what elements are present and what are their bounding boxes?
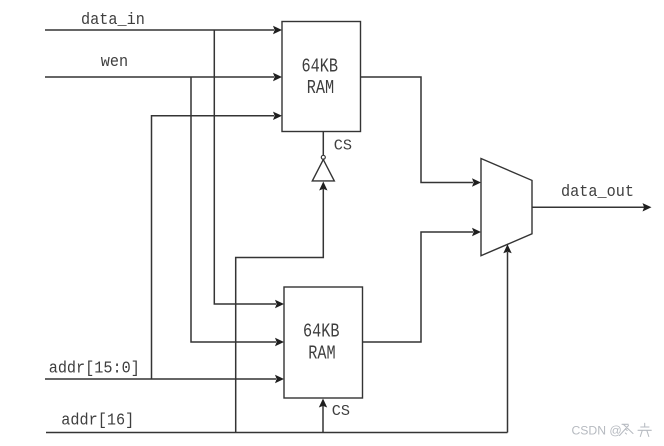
arrowhead wen into U2: [275, 338, 284, 346]
label U1 value 64KB RAM: [302, 57, 338, 100]
svg-text:64KB: 64KB: [302, 57, 338, 78]
watermark CSDN @dong hui: [572, 423, 652, 437]
wire addr[15:0] branch to top RAM: [152, 116, 275, 379]
svg-text:wen: wen: [101, 53, 128, 72]
arrowhead into inverter input: [319, 182, 327, 191]
wire U2 CS from addr[16]: [322, 406, 324, 433]
wire wen: [45, 76, 274, 78]
arrowhead data_in into U1: [273, 26, 282, 34]
label U2 value 64KB RAM: [303, 322, 339, 365]
svg-text:addr[16]: addr[16]: [61, 411, 134, 430]
mux U4: [481, 159, 532, 256]
arrowhead U2 CS: [319, 399, 327, 408]
label data_out: [561, 182, 634, 201]
arrowhead addr[15:0] into U1: [273, 112, 282, 120]
RAM U1 (top 64KB RAM): [282, 22, 361, 132]
wire data_in: [45, 29, 274, 31]
svg-text:64KB: 64KB: [303, 322, 339, 343]
wire U1 CS stub: [322, 132, 324, 156]
label addr[16]: [61, 411, 134, 430]
label U1 pin CS: [334, 136, 352, 154]
label addr[15:0]: [49, 359, 140, 378]
wire data_out: [532, 206, 644, 208]
svg-text:RAM: RAM: [307, 79, 334, 100]
wire U1 output to mux: [361, 77, 474, 183]
label data_in: [81, 10, 145, 29]
inverter U3 triangle: [312, 160, 334, 181]
arrowhead U1 output into mux: [472, 178, 481, 186]
arrowhead U2 output into mux: [472, 228, 481, 236]
arrowhead data_out: [643, 203, 652, 211]
wire addr[15:0]: [45, 378, 276, 380]
arrowhead mux select: [503, 244, 511, 253]
junction wen branch: [191, 77, 276, 342]
inverter U3 bubble: [321, 155, 325, 159]
svg-text:CS: CS: [332, 402, 350, 420]
arrowhead wen into U1: [273, 73, 282, 81]
RAM U2 (bottom 64KB RAM): [284, 287, 363, 398]
svg-text:CS: CS: [334, 136, 352, 154]
wire mux select from addr[16]: [507, 252, 509, 433]
svg-text:CSDN @: CSDN @: [572, 424, 622, 438]
wire inverter input from addr[16]: [236, 189, 324, 433]
svg-text:RAM: RAM: [308, 344, 335, 365]
svg-text:data_out: data_out: [561, 182, 634, 201]
svg-text:addr[15:0]: addr[15:0]: [49, 359, 140, 378]
label U2 pin CS: [332, 402, 350, 420]
arrowhead addr[15:0] into U2: [275, 375, 284, 383]
label wen: [101, 53, 128, 72]
arrowhead data_in into U2: [275, 300, 284, 308]
junction data_in branch: [214, 30, 276, 304]
wire U2 output to mux: [363, 232, 474, 342]
wire addr[16]: [46, 432, 508, 434]
svg-text:data_in: data_in: [81, 10, 145, 29]
